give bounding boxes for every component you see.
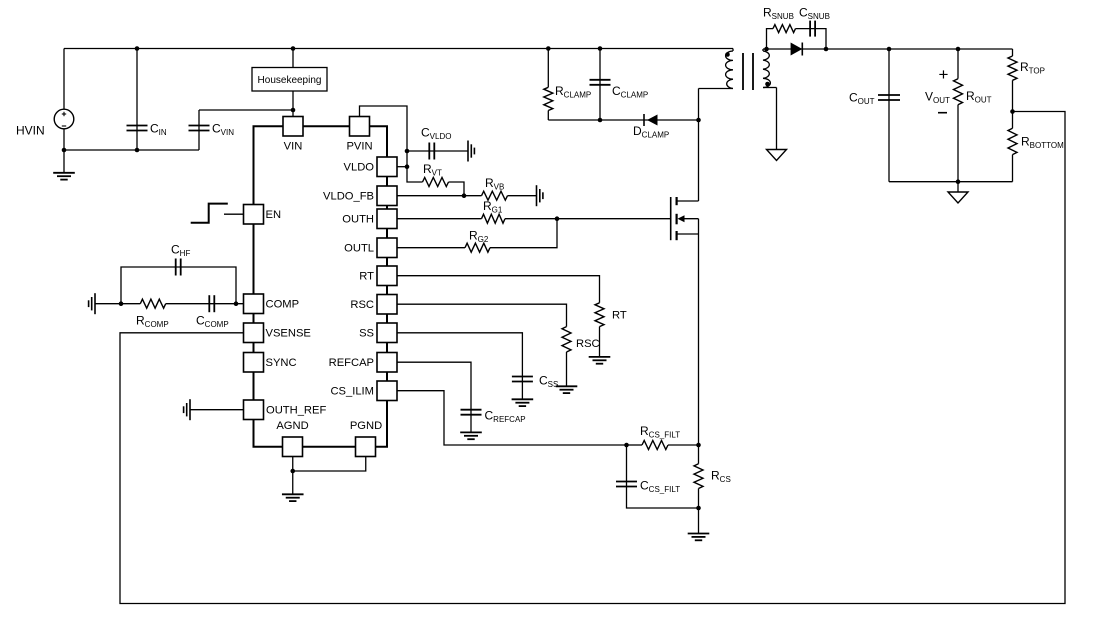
wire OUTH_REF [190,409,244,411]
capacitor CSNUB [809,21,811,37]
capacitor CCLAMP [599,49,601,121]
wire VSENSE feedback loop [120,112,1065,604]
resistor RVB [482,191,508,200]
capacitor CCOMP [208,295,210,312]
svg-text:HVIN: HVIN [16,124,45,138]
svg-text:AGND: AGND [276,420,308,432]
svg-text:VSENSE: VSENSE [266,328,311,340]
ground RT [599,327,601,357]
resistor RTOP [1012,49,1014,56]
ground RVB chassis [536,185,538,206]
resistor ROUT [957,49,959,79]
pin PVIN [350,117,370,137]
svg-text:PVIN: PVIN [346,141,372,153]
wire AGND-PGND ground [293,457,366,472]
wire IC AGND-PGND [303,446,356,448]
ground T1 secondary [776,88,778,150]
svg-text:EN: EN [266,209,282,221]
wire VLDO pin [397,166,407,168]
pin OUTH_REF [244,400,264,420]
svg-text:PGND: PGND [350,420,382,432]
svg-text:CS_ILIM: CS_ILIM [330,386,374,398]
wire output bottom rail [889,181,1013,183]
ground RCS [698,508,700,534]
source HVIN [63,49,65,110]
pin AGND [283,437,303,457]
wire T1 core [742,53,744,90]
wire secondary top rail [763,48,1013,50]
svg-text:VIN: VIN [284,141,303,153]
wire drain [698,89,700,202]
resistor RG2 [465,243,490,252]
resistor RCLAMP [547,49,549,88]
capacitor CSS [512,376,533,378]
ground CREFCAP [460,431,482,433]
capacitor CIN [136,49,138,151]
wire clamp bottom [548,119,698,121]
ground HVIN [63,150,65,173]
svg-text:COMP: COMP [266,299,300,311]
svg-text:SS: SS [359,328,374,340]
pin VLDO [377,157,397,177]
svg-text:OUTH: OUTH [342,214,374,226]
transistor Q1 [670,197,672,240]
capacitor COUT [888,49,890,182]
pin RSC [377,295,397,315]
ground CSS [512,398,534,400]
node gate junction [555,216,560,221]
wire VLDO_FB row [397,195,482,197]
wire CS_ILIM pin [397,391,627,445]
pin RT [377,266,397,286]
resistor RBOTTOM [1008,128,1017,154]
resistor RCOMP [140,299,165,308]
wire IC VIN-PVIN [303,125,350,127]
ground output [957,182,959,192]
pin VSENSE [244,323,264,343]
pin PGND [356,437,376,457]
node secondary rail junctions [764,47,769,52]
svg-text:OUTL: OUTL [344,243,374,255]
wire SS pin [397,333,522,400]
ground RSC [566,352,568,386]
wire CVIN to VIN [199,109,293,111]
node secondary phase dot [765,82,770,87]
svg-text:+: + [939,65,949,84]
wire source [698,219,700,464]
node primary phase dot [725,52,730,57]
source EN step [191,204,228,223]
ground AGND [292,471,294,494]
ground OUTH_REF chassis [189,399,191,420]
svg-text:Housekeeping: Housekeeping [258,75,322,86]
node COMP junctions [119,301,124,306]
wire OUTL row [397,247,465,249]
node RCS bottom junction [696,506,701,511]
pin SYNC [244,353,264,373]
pin EN [244,205,264,225]
svg-text:RT: RT [359,271,374,283]
node VLDO junctions [405,149,410,154]
wire RSC pin [397,304,567,326]
pin CS_ILIM [377,381,397,401]
svg-text:RSC: RSC [350,299,374,311]
pin SS [377,323,397,343]
svg-text:RT: RT [612,310,627,322]
pin COMP [244,294,264,314]
resistor RVT [423,178,449,187]
pin REFCAP [377,353,397,373]
pin VIN [283,117,303,137]
wire COMP row [95,303,140,305]
resistor RSNUB [773,25,796,33]
svg-text:SYNC: SYNC [266,357,297,369]
ground COMP chassis [94,293,96,314]
wire REFCAP pin [397,362,471,432]
wire PVIN to VLDO node [360,106,423,182]
wire primary top rail [64,48,733,50]
wire input bottom [64,149,199,151]
svg-text:OUTH_REF: OUTH_REF [266,405,326,417]
resistor RT [595,303,604,327]
node RVT junction [462,193,467,198]
block Housekeeping [292,49,294,68]
svg-text:REFCAP: REFCAP [329,357,374,369]
capacitor CHF [121,267,236,304]
resistor RCS [694,464,703,489]
pin OUTL [377,238,397,258]
svg-text:RSC: RSC [576,338,600,350]
diode D1 [791,43,803,56]
inductor T1 primary [732,49,734,52]
resistor RG1 [482,214,506,223]
pin OUTH [377,209,397,229]
wire OUTH row [397,218,482,220]
svg-text:VLDO: VLDO [344,162,375,174]
resistor RCS_FILT [627,444,643,446]
wire RT pin [397,276,600,303]
wire IC right outline [370,126,387,447]
capacitor CVLDO [407,150,468,152]
snubber loop [767,29,774,49]
capacitor CVIN [198,110,200,150]
wire IC left outline [254,126,284,447]
inductor T1 secondary [762,49,764,51]
diode DCLAMP [643,114,645,126]
capacitor CCS_FILT [627,445,699,508]
pin VLDO_FB [377,186,397,206]
node HVIN top junctions [135,46,140,51]
capacitor CREFCAP [461,409,482,411]
ground CVLDO chassis [467,141,469,162]
resistor RSC [562,327,571,352]
svg-text:VLDO_FB: VLDO_FB [323,191,374,203]
node CS filter junctions [624,443,629,448]
node feedback junction [1010,109,1015,114]
